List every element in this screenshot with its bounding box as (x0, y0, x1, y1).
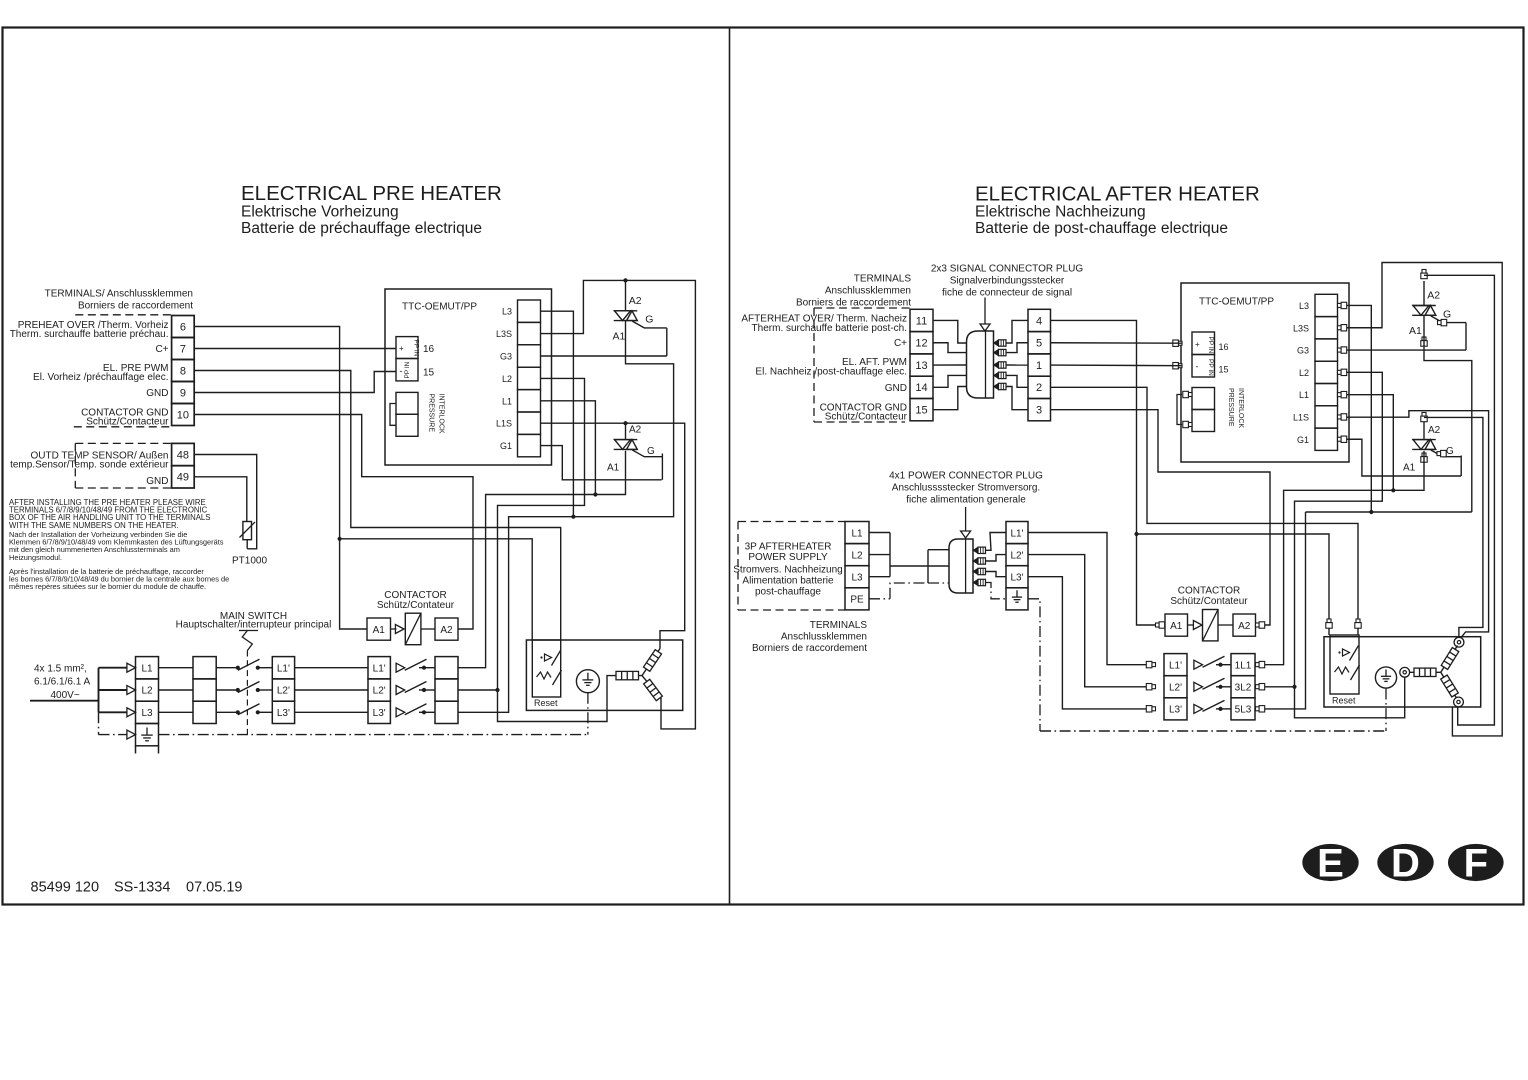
wire 13 to plug (933, 364, 967, 366)
wire plug to 3 (1006, 387, 1028, 410)
PE dash-dot bus (159, 734, 588, 736)
svg-text:L3': L3' (1169, 705, 1182, 716)
svg-text:fiche alimentation generale: fiche alimentation generale (906, 495, 1026, 506)
svg-text:85499 120: 85499 120 (31, 880, 100, 896)
svg-text:fiche de connecteur de signal: fiche de connecteur de signal (942, 288, 1072, 299)
wire U2 L1 (1347, 395, 1394, 491)
svg-text:PE: PE (850, 595, 864, 606)
wire terminal 2 down to reset switch (1051, 387, 1359, 635)
wire plug to L2' supply (986, 555, 1007, 561)
svg-text:A1: A1 (613, 330, 626, 342)
U2 terminal L1S (1315, 406, 1338, 428)
svg-text:6.1/6.1/6.1 A: 6.1/6.1/6.1 A (34, 677, 90, 688)
contactor K1 arrow (391, 628, 397, 630)
U1 PP IN - terminal 15 (396, 359, 418, 381)
svg-text:Reset: Reset (1332, 695, 1356, 705)
U1 terminal L2 (518, 367, 541, 389)
wire plug to L1' supply (986, 533, 1007, 551)
svg-text:400V~: 400V~ (51, 690, 80, 701)
supply-out terminal L3' (1006, 566, 1028, 588)
svg-text:PRESSURE: PRESSURE (1227, 388, 1234, 427)
supply bus (98, 668, 100, 713)
contactor K2 coil (1203, 610, 1219, 641)
PE input arrow (127, 730, 136, 739)
controller U1 TTC-OEMUT/PP box (385, 289, 552, 465)
svg-text:2: 2 (1036, 382, 1042, 394)
power supply terminal L2 (845, 544, 869, 566)
U1 terminal G1 (518, 434, 541, 456)
U1 terminal L1 (518, 390, 541, 412)
contactor K1 coil (405, 613, 421, 645)
wire terminal 7 to PP IN + (194, 348, 396, 350)
triac V3 A1 pin (1422, 337, 1426, 341)
wire 14 to plug (933, 375, 967, 387)
svg-text:L2: L2 (851, 550, 863, 561)
svg-text:Therm. surchauffe batterie pos: Therm. surchauffe batterie post-ch. (752, 323, 907, 334)
svg-text:PP IN: PP IN (404, 361, 411, 378)
U2 terminal L3 pin (1338, 303, 1342, 307)
triac V3 (1423, 281, 1425, 306)
U1 terminal L3S (518, 322, 541, 344)
U2 PP IN - terminal 15 (1192, 355, 1215, 378)
power supply terminal L3 (845, 566, 869, 588)
junction terminal-6 branch (338, 537, 342, 541)
svg-text:L2: L2 (141, 686, 153, 697)
PE dash-dot stub (98, 712, 100, 734)
contactor K1 A2 terminal box (421, 628, 435, 630)
heater plug socket left (1400, 667, 1410, 677)
triac V1 (625, 280, 627, 310)
svg-text:L3': L3' (277, 708, 290, 719)
input arrow row 2 (127, 686, 136, 695)
wire switch to L1' row 1 (258, 667, 273, 669)
svg-text:L1: L1 (1299, 390, 1309, 400)
svg-text:L3: L3 (502, 307, 512, 317)
main switch handle (239, 630, 258, 632)
svg-text:Batterie de préchauffage elect: Batterie de préchauffage electrique (241, 220, 482, 237)
triac V4 (1423, 421, 1425, 439)
svg-text:Anschlusssstecker Stromversorg: Anschlusssstecker Stromversorg. (892, 483, 1040, 494)
svg-text:INTERLOCK: INTERLOCK (1237, 388, 1244, 428)
terminal box 8 (172, 360, 195, 382)
wire power L2 comb (869, 554, 890, 556)
svg-text:F: F (1464, 842, 1488, 886)
wire 12 to plug (933, 343, 967, 353)
junction L2 wire / contactor output L2 (495, 688, 499, 692)
wire terminal 4 to contactor A1 right (1051, 320, 1166, 625)
wire triac V1 A1 to contactor output row3 (458, 321, 674, 713)
input column tails (135, 746, 137, 754)
contactor K2 contact row 2 (1194, 682, 1203, 691)
heater element R6 (lower leg) (1441, 672, 1457, 698)
svg-text:Stromvers. Nachheizung: Stromvers. Nachheizung (733, 565, 843, 576)
svg-text:GND: GND (885, 383, 907, 394)
U2 terminal G3 pin (1338, 348, 1342, 352)
wire plug to 2 (1006, 375, 1028, 387)
overheat cutout box (532, 640, 560, 697)
U1 terminal L1S (518, 412, 541, 434)
svg-text:El. Nachheiz /post-chauffage e: El. Nachheiz /post-chauffage elec. (755, 367, 907, 378)
overheat cutout contacts (540, 656, 542, 658)
svg-text:+: + (399, 344, 404, 353)
supply stub row 1 (99, 667, 128, 669)
svg-text:Borniers de raccordement: Borniers de raccordement (796, 298, 911, 309)
wire branch to reset switch right (1137, 534, 1330, 635)
main switch blade row 1 (238, 659, 260, 670)
svg-text:14: 14 (915, 382, 927, 394)
svg-text:9: 9 (180, 387, 186, 399)
supply stub row 2 (99, 689, 128, 691)
svg-text:E: E (1317, 842, 1344, 886)
wire triac V3 A2 to heater plug (1424, 275, 1494, 725)
U1 terminal L3 (518, 300, 541, 322)
power plug contact 3 (973, 568, 978, 574)
svg-text:ELECTRICAL AFTER HEATER: ELECTRICAL AFTER HEATER (975, 183, 1260, 206)
dashed border terminal block 6-10 (75, 314, 171, 316)
wire fuse to switch row 3 (216, 711, 238, 713)
terminal box 13 (910, 354, 933, 376)
svg-text:Therm. surchauffe batterie pré: Therm. surchauffe batterie préchau. (10, 329, 169, 340)
wire L1' to heater terminal row 2 (295, 689, 368, 691)
triac V2 (625, 423, 627, 439)
revision oval D (1377, 844, 1433, 881)
svg-text:49: 49 (177, 472, 189, 484)
svg-text:13: 13 (915, 360, 927, 372)
svg-text:L3S: L3S (496, 329, 512, 339)
junction L1 / triac V4 A1 wire (1391, 488, 1395, 492)
terminal box 10 (172, 404, 195, 426)
controller U2 TTC-OEMUT/PP box (1181, 283, 1349, 462)
supply feed wire (30, 700, 99, 702)
overheat cutout contacts right (1338, 651, 1340, 653)
svg-text:Schütz/Contateur: Schütz/Contateur (377, 600, 455, 611)
svg-text:Elektrische Vorheizung: Elektrische Vorheizung (241, 204, 399, 221)
wire input to fuse row 1 (159, 667, 194, 669)
svg-text:WITH THE SAME NUMBERS ON THE H: WITH THE SAME NUMBERS ON THE HEATER. (9, 521, 179, 530)
contactor K2 input column L1' (1164, 654, 1187, 676)
supply-out terminal L1' (1006, 522, 1028, 544)
comb vertical (889, 533, 891, 577)
svg-text:G3: G3 (500, 352, 512, 362)
svg-text:Borniers de raccordement: Borniers de raccordement (78, 300, 193, 311)
U2 terminal G1 pin (1338, 437, 1342, 441)
svg-text:mêmes repères situées sur le b: mêmes repères situées sur le bornier du … (9, 582, 206, 591)
junction top bus / triac V1 A2 (623, 278, 627, 282)
svg-text:+: + (1195, 340, 1200, 349)
heater terminal column L1' (368, 657, 390, 679)
terminal box 9 (172, 382, 195, 404)
U1 PP IN + terminal 16 (396, 337, 418, 359)
U2 terminal L1S pin (1338, 415, 1342, 419)
wire terminal 49 to PT1000 (194, 477, 247, 522)
svg-text:16: 16 (1219, 342, 1229, 352)
svg-text:L3': L3' (1010, 573, 1023, 584)
svg-text:PRESSURE: PRESSURE (428, 394, 435, 433)
power plug contact 4 (973, 579, 978, 585)
heater plug socket top (1454, 637, 1464, 647)
signal plug pointer arrow (984, 298, 986, 325)
svg-text:A1: A1 (607, 463, 620, 474)
wire supply L2' step down (1028, 555, 1155, 687)
U1 pressure interlock contact (396, 392, 418, 414)
svg-text:L1: L1 (141, 663, 153, 674)
svg-text:POWER SUPPLY: POWER SUPPLY (748, 552, 828, 563)
wire L1' to heater terminal row 1 (295, 667, 368, 669)
svg-text:PT1000: PT1000 (232, 556, 267, 567)
wire U2 L2 to heater (1295, 372, 1405, 717)
wire U1 L2 to heater (498, 378, 617, 721)
ground dash-dot link (587, 693, 589, 735)
svg-text:A2: A2 (1427, 290, 1440, 302)
svg-text:CONTACTOR: CONTACTOR (1178, 585, 1240, 596)
input arrow row 1 (127, 663, 136, 672)
svg-text:L1: L1 (851, 528, 863, 539)
svg-text:12: 12 (915, 338, 927, 350)
svg-text:Signalverbindungsstecker: Signalverbindungsstecker (950, 276, 1065, 287)
U2 terminal L3 (1315, 294, 1338, 316)
U2 terminal L2 (1315, 361, 1338, 383)
wire terminal 6 to contactor A1 (194, 327, 367, 630)
terminal box 4 (1028, 309, 1051, 331)
svg-text:-: - (400, 366, 403, 376)
triac V4 A1 pin (1422, 453, 1426, 457)
wire U1 L3S to top bus (541, 280, 696, 729)
U2 terminal L3S (1315, 317, 1338, 339)
svg-text:16: 16 (423, 344, 435, 355)
junction 3L2 row (1292, 685, 1296, 689)
terminal box 7 (172, 338, 195, 360)
wire U1 G1 to triac V2 gate (541, 446, 662, 480)
wire U1 L1S to heater (541, 423, 685, 648)
wire terminal 48 to PT1000 (194, 455, 257, 549)
svg-text:3: 3 (1036, 405, 1042, 417)
svg-text:A2: A2 (629, 425, 642, 436)
wire terminal 3 to contactor A2 right (1051, 410, 1271, 625)
U2 terminal L1 (1315, 384, 1338, 406)
svg-text:A1: A1 (1170, 621, 1183, 632)
svg-text:A1: A1 (1409, 325, 1422, 337)
svg-text:L2': L2' (277, 686, 290, 697)
svg-text:PP IN: PP IN (1207, 337, 1214, 354)
supply-out earth symbol (1016, 590, 1018, 597)
svg-text:2x3 SIGNAL CONNECTOR PLUG: 2x3 SIGNAL CONNECTOR PLUG (931, 264, 1083, 275)
junction terminal-4 branch (1134, 532, 1138, 536)
svg-text:A2: A2 (1238, 621, 1251, 632)
contactor K2 contact row 1 (1194, 660, 1203, 669)
PE dash-dot to plug (869, 598, 890, 600)
svg-text:Borniers de raccordement: Borniers de raccordement (752, 643, 867, 654)
svg-text:48: 48 (177, 449, 189, 461)
svg-text:Schütz/Contacteur: Schütz/Contacteur (86, 417, 169, 428)
wire 15 to plug (933, 387, 967, 410)
svg-text:L2': L2' (373, 686, 386, 697)
triac V2 gate lead (632, 450, 662, 457)
input arrow row 3 (127, 708, 136, 717)
heater box right (1324, 637, 1481, 707)
svg-text:L1': L1' (1010, 528, 1023, 539)
heater output column 1L1 3L2 5L3 (1231, 654, 1255, 676)
wire 3L2 to node (1264, 686, 1295, 688)
svg-text:11: 11 (916, 315, 927, 327)
svg-text:G: G (1443, 308, 1451, 320)
svg-text:07.05.19: 07.05.19 (186, 880, 242, 896)
svg-text:INTERLOCK: INTERLOCK (438, 394, 445, 434)
svg-text:Schütz/Contateur: Schütz/Contateur (1170, 596, 1248, 607)
svg-text:Anschlussklemmen: Anschlussklemmen (825, 286, 911, 297)
wire U2 L3S to top bus right (1347, 263, 1503, 736)
svg-text:TERMINALS: TERMINALS (810, 620, 868, 631)
U2 terminal G3 (1315, 339, 1338, 361)
terminal box 15 (910, 399, 933, 421)
wire branch to overheat reset switch (340, 539, 533, 640)
wire triac V4 A2 to heater plug (1424, 417, 1483, 637)
svg-text:15: 15 (915, 405, 927, 417)
svg-text:G: G (1446, 446, 1454, 457)
comb to plug (890, 565, 928, 567)
svg-text:C+: C+ (155, 344, 168, 355)
svg-text:A2: A2 (1428, 425, 1441, 436)
wire U1 L1 (541, 401, 596, 495)
svg-text:4x 1.5 mm²,: 4x 1.5 mm², (34, 663, 87, 674)
svg-text:Heizungsmodul.: Heizungsmodul. (9, 553, 62, 562)
wire supply L1' step down (1028, 533, 1155, 665)
contactor K2 arrow (1188, 624, 1194, 626)
U2 PP IN + terminal 16 (1192, 332, 1215, 355)
svg-text:TERMINALS: TERMINALS (854, 274, 912, 285)
svg-text:L2: L2 (1299, 368, 1309, 378)
heater box (526, 640, 682, 710)
wire terminal 1 to U2 PP IN - (1051, 364, 1183, 367)
svg-text:L1S: L1S (496, 419, 512, 429)
svg-text:-: - (1196, 362, 1199, 372)
wire U1 G3 to triac V1 gate (541, 355, 667, 357)
svg-text:L3': L3' (373, 708, 386, 719)
svg-text:L1': L1' (1169, 661, 1182, 672)
svg-text:15: 15 (423, 368, 435, 379)
terminal box 11 (910, 309, 933, 331)
svg-text:15: 15 (1219, 365, 1229, 375)
dashed border sensor block 48-49 (75, 442, 171, 444)
wire switch to L1' row 3 (258, 711, 273, 713)
supply stub row 3 (99, 711, 128, 713)
svg-text:G1: G1 (1297, 435, 1309, 445)
wire switch to L1' row 2 (258, 689, 273, 691)
svg-text:temp.Sensor/Temp. sonde extéri: temp.Sensor/Temp. sonde extérieur (10, 460, 169, 471)
junction L3 / triac V3 A1 (1369, 510, 1373, 514)
svg-text:L3: L3 (141, 708, 153, 719)
terminal box 1 (1028, 354, 1051, 376)
contactor K2 A1 box (1156, 623, 1160, 627)
svg-text:A1: A1 (373, 625, 386, 636)
wire plug to 1 (1006, 364, 1028, 366)
svg-text:G3: G3 (1297, 346, 1309, 356)
wire U2 G1 to triac V4 gate (1347, 439, 1462, 476)
ground terminal circle (576, 670, 599, 693)
U2 terminal G1 (1315, 428, 1338, 450)
terminal column L1' (after switch) (272, 657, 294, 679)
signal connector plug X1 body (967, 331, 994, 398)
main switch blade row 3 (238, 704, 260, 715)
wire fuse to switch row 2 (216, 689, 238, 691)
U2 terminal L1 pin (1338, 393, 1342, 397)
heater plug socket bottom (1454, 697, 1464, 707)
svg-text:PP IN: PP IN (1207, 359, 1214, 376)
wire triac V3 A1 to 5L3 row (1424, 315, 1472, 512)
signal plug contact 4 (994, 372, 999, 378)
ground circle dash-dot link right (1385, 689, 1387, 732)
svg-text:Anschlussklemmen: Anschlussklemmen (781, 632, 867, 643)
svg-text:C+: C+ (894, 338, 907, 349)
contactor K1 contact row 3 (396, 708, 405, 717)
wire supply L3' step down (1028, 577, 1155, 709)
signal plug contact 5 (994, 383, 999, 389)
svg-text:Reset: Reset (534, 698, 558, 708)
svg-text:post-chauffage: post-chauffage (755, 587, 821, 598)
main switch blade row 2 (238, 682, 260, 693)
supply-out terminal L2' (1006, 544, 1028, 566)
wire U2 L3 down (1347, 305, 1372, 512)
svg-text:1L1: 1L1 (1235, 661, 1252, 672)
terminal box 3 (1028, 399, 1051, 421)
triac V4 gate lead (1431, 450, 1461, 457)
power plug contact 1 (973, 547, 978, 553)
panel divider (729, 28, 731, 905)
power supply terminal L1 (845, 522, 869, 544)
svg-text:TERMINALS/ Anschlussklemmen: TERMINALS/ Anschlussklemmen (45, 289, 193, 300)
wire plug to L3' supply (986, 572, 1007, 577)
svg-text:L2: L2 (502, 374, 512, 384)
input terminal PE cell with earth (136, 724, 159, 746)
svg-text:7: 7 (180, 343, 186, 355)
svg-text:SS-1334: SS-1334 (114, 880, 170, 896)
contactor K1 A1 terminal box (367, 618, 391, 640)
svg-text:TTC-OEMUT/PP: TTC-OEMUT/PP (402, 302, 477, 313)
svg-text:Alimentation batterie: Alimentation batterie (742, 576, 834, 587)
U1 terminal G3 (518, 345, 541, 367)
svg-text:3L2: 3L2 (1235, 683, 1252, 694)
dash-dot plug to PE supply (986, 583, 1007, 599)
svg-text:A2: A2 (629, 295, 642, 307)
wire terminal 5 to U2 PP IN + (1051, 342, 1183, 344)
wire fuse to switch row 1 (216, 667, 238, 669)
U2 pressure interlock contact (1192, 388, 1215, 410)
wire contactor output row2 to node (458, 689, 498, 691)
dash-dot PE bus right (1028, 599, 1040, 731)
overheat cutout box right (1330, 635, 1359, 694)
terminal box 2 (1028, 376, 1051, 398)
wire plug to 5 (1006, 343, 1028, 353)
heater element R5 (upper leg) (1441, 646, 1458, 673)
revision oval E (1302, 844, 1358, 881)
wire U1 L3 down (541, 311, 574, 517)
svg-text:GND: GND (146, 476, 168, 487)
U2 terminal L3S pin (1338, 326, 1342, 330)
svg-text:L2': L2' (1169, 683, 1182, 694)
svg-text:GND: GND (146, 388, 168, 399)
svg-text:L1: L1 (502, 396, 512, 406)
svg-text:A1: A1 (1403, 463, 1416, 474)
svg-text:6: 6 (180, 321, 186, 333)
contactor K2 contact row 3 (1194, 704, 1203, 713)
terminal box 48 (172, 443, 195, 465)
svg-text:8: 8 (180, 365, 186, 377)
svg-text:G1: G1 (500, 441, 512, 451)
dashed border terminal block 11-15 (814, 307, 910, 309)
svg-text:PP IN: PP IN (413, 340, 420, 357)
svg-text:G: G (647, 446, 655, 457)
wire terminal 10 to contactor A2 (194, 415, 473, 630)
terminal box 14 (910, 376, 933, 398)
